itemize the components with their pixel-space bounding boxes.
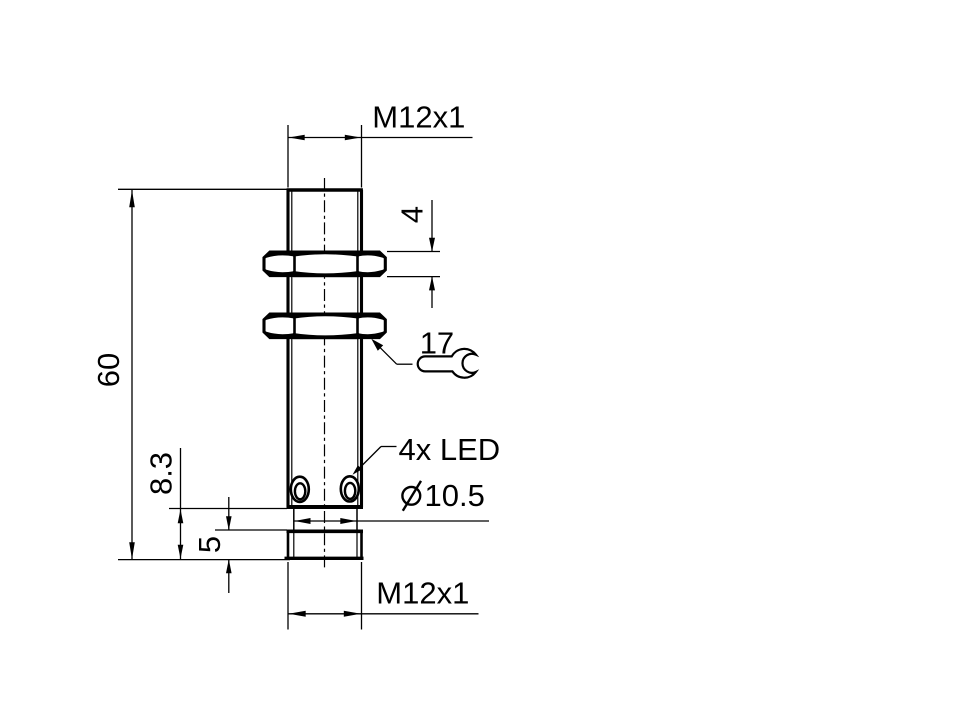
svg-text:4: 4 — [394, 206, 429, 223]
svg-text:4x LED: 4x LED — [399, 432, 501, 467]
svg-text:5: 5 — [192, 536, 227, 553]
svg-text:17: 17 — [420, 326, 454, 361]
svg-text:8.3: 8.3 — [144, 452, 179, 495]
svg-text:M12x1: M12x1 — [372, 100, 465, 135]
svg-text:M12x1: M12x1 — [376, 576, 469, 611]
svg-text:10.5: 10.5 — [425, 478, 485, 513]
svg-text:60: 60 — [91, 353, 126, 387]
